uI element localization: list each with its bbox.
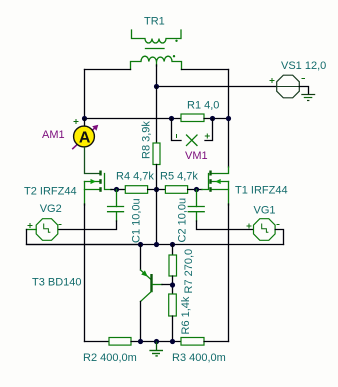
wire VS1 right terminal	[299, 87, 308, 95]
ammeter AM1 body	[74, 126, 95, 147]
transformer TR1 secondary winding (top, 3 bumps)	[132, 30, 182, 43]
transistor T2 source bar	[99, 187, 101, 192]
wire T3 base to R6R7 node	[162, 284, 173, 286]
wire center tap down to node	[156, 65, 158, 87]
transistor T3 base lead	[153, 284, 163, 286]
node bus / R4R5	[154, 242, 159, 247]
resistor R1	[181, 114, 204, 122]
node R7/R6/T3 base	[170, 282, 175, 287]
wire node down to bus	[156, 190, 158, 245]
wire R6 to bottom row	[172, 316, 174, 342]
generator VG1 plus marker	[247, 224, 252, 229]
transistor T3 base bar	[150, 274, 152, 292]
generator VG2 minus marker	[59, 224, 62, 226]
resistor R2	[109, 338, 131, 346]
wire R3 to bottom-right corner	[204, 341, 229, 343]
svg-text:C1 10,0u: C1 10,0u	[131, 198, 143, 243]
transistor T1 body line with arrow	[212, 181, 229, 183]
svg-text:R4 4,7k: R4 4,7k	[116, 171, 154, 183]
transformer TR1 primary winding (bottom, 4 bumps)	[131, 56, 182, 69]
wire T3 emitter feed	[140, 245, 142, 271]
capacitor C2 top lead	[196, 190, 198, 207]
capacitor C1 plates	[108, 206, 124, 208]
voltmeter VM1 left bracket	[172, 119, 182, 141]
resistor R6	[169, 294, 177, 316]
node above AM1	[82, 116, 87, 121]
transistor T2 body line with arrow	[85, 181, 100, 183]
generator VG2 left lead	[27, 229, 37, 231]
wire C2 to VG1	[197, 221, 254, 230]
node T2 gate / C1 / R4	[114, 187, 119, 192]
wire R8 bottom to node	[156, 165, 158, 190]
ground at VS1	[301, 94, 315, 96]
generator VG2 waveform	[44, 224, 51, 233]
transistor T2 drain bar	[99, 171, 101, 176]
wire T2 gate to node	[111, 189, 125, 191]
svg-text:VS1 12,0: VS1 12,0	[281, 60, 326, 72]
transformer TR1 center tap lead	[156, 62, 158, 67]
node bottom R6	[170, 339, 175, 344]
svg-text:VG2: VG2	[40, 203, 62, 215]
resistor R5	[165, 186, 187, 194]
svg-text:R8 3,9k: R8 3,9k	[141, 121, 153, 159]
resistor R4	[125, 186, 147, 194]
voltmeter VM1 plus marker	[205, 134, 210, 139]
voltage source VS1 body	[277, 75, 300, 98]
transistor T1 drain bar	[209, 171, 211, 176]
svg-text:VM1: VM1	[185, 150, 208, 162]
wire top-left horizontal	[85, 69, 131, 71]
svg-text:R2 400,0m: R2 400,0m	[83, 352, 137, 364]
wire R7 to node	[172, 276, 174, 294]
wire R4 to R5	[148, 189, 166, 191]
transistor T2 source line	[85, 189, 100, 191]
svg-text:TR1: TR1	[144, 15, 165, 27]
svg-text:AM1: AM1	[42, 129, 65, 141]
svg-text:T3 BD140: T3 BD140	[32, 277, 82, 289]
ammeter AM1 plus marker	[74, 119, 79, 124]
wire left vertical upper	[84, 70, 86, 119]
transistor T2 body bar	[99, 179, 101, 184]
transistor T2 gate line	[105, 174, 112, 190]
generator VG1 body	[254, 219, 276, 241]
transformer TR1 core line	[146, 48, 165, 50]
wire VG2 plus loop to bus	[27, 230, 141, 245]
svg-text:T1 IRFZ44: T1 IRFZ44	[235, 185, 288, 197]
voltmeter VM1 minus marker	[176, 134, 178, 138]
voltage source VS1 minus marker	[302, 78, 306, 80]
ammeter AM1 arrow tail	[72, 128, 94, 149]
node bottom ground	[154, 339, 159, 344]
capacitor C2 bottom lead	[196, 212, 198, 221]
generator VG2 plus marker	[28, 223, 33, 228]
voltmeter VM1 right bracket	[205, 119, 213, 141]
wire top-right horizontal	[182, 69, 229, 71]
ammeter AM1 arrow head	[92, 125, 98, 131]
wire center tap node to VS1	[157, 86, 278, 88]
wire R2 to R3	[131, 341, 181, 343]
transistor T1 drain lead	[211, 167, 229, 174]
resistor R8	[153, 143, 160, 165]
wire bottom-left corner to R2	[85, 341, 110, 343]
node bus / T3 emitter	[138, 242, 143, 247]
node R1 left	[169, 116, 174, 121]
node bottom T3 collector	[138, 339, 143, 344]
wire AM1 node to R1	[85, 118, 182, 120]
wire right vertical (drain feed)	[228, 70, 230, 168]
svg-text:R3 400,0m: R3 400,0m	[172, 352, 226, 364]
wire R5 to T1 gate	[188, 189, 202, 191]
capacitor C1 top lead	[116, 190, 118, 207]
voltage source VS1 plus marker	[270, 78, 275, 83]
transistor T2 source-body tie	[84, 182, 86, 206]
wire T2 source down left side	[84, 204, 86, 342]
svg-text:R6 1,4k: R6 1,4k	[180, 296, 192, 334]
generator VG1 waveform	[262, 224, 269, 233]
svg-text:A: A	[79, 130, 91, 147]
wire R1 right to drain feed	[204, 118, 229, 120]
transistor T1 source-body tie	[228, 182, 230, 206]
transistor T1 source bar	[209, 187, 211, 192]
svg-text:T2 IRFZ44: T2 IRFZ44	[24, 186, 77, 198]
transformer TR1 phase dot upper	[175, 40, 177, 42]
node bus / R7	[170, 242, 175, 247]
node center tap junction	[154, 84, 159, 89]
wire C1 to VG2	[58, 221, 117, 230]
wire bus row	[27, 244, 284, 246]
svg-text:R5 4,7k: R5 4,7k	[160, 171, 198, 183]
ammeter AM1 top lead	[84, 119, 86, 128]
wire AM1 to T2 drain	[85, 147, 100, 174]
resistor R3	[181, 338, 204, 346]
node R4/R5/R8	[154, 187, 159, 192]
node R5 / C2 / T1 gate	[194, 187, 199, 192]
transistor T1 source line	[212, 189, 229, 191]
node drain feed / R1	[226, 116, 231, 121]
wire node down to R8	[156, 87, 158, 144]
svg-text:R7 270,0: R7 270,0	[183, 249, 195, 294]
ground at bottom	[156, 342, 158, 351]
transformer TR1 phase dot lower	[173, 55, 175, 57]
wire T3 collector down	[140, 302, 142, 342]
generator VG2 body	[36, 219, 58, 241]
wire bus to R7	[172, 245, 174, 256]
transistor T1 body bar	[209, 179, 211, 184]
resistor R7	[169, 255, 177, 276]
svg-text:VG1: VG1	[254, 205, 276, 217]
capacitor C2 plates	[188, 206, 204, 208]
wire T1 source down right side	[228, 204, 230, 342]
wire VG1 right loop to bus	[275, 230, 283, 245]
transistor T3 collector diagonal	[141, 292, 152, 302]
svg-text:R1 4,0: R1 4,0	[187, 100, 219, 112]
svg-text:C2 10,0u: C2 10,0u	[177, 198, 189, 243]
generator VG1 minus marker	[277, 224, 280, 226]
transistor T3 emitter diagonal with arrow	[141, 270, 152, 280]
transistor T1 gate line	[202, 174, 209, 190]
capacitor C1 bottom lead	[116, 212, 118, 221]
voltmeter VM1 cross	[187, 135, 198, 146]
voltage source VS1 internal line	[277, 86, 299, 88]
node R1 right	[210, 116, 215, 121]
